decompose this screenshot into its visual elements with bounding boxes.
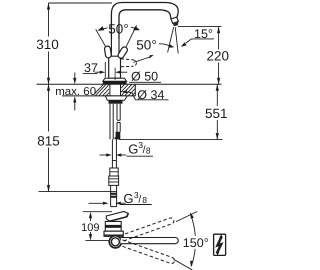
50deg second lower leader with arrow <box>134 57 150 62</box>
handle swing line right <box>121 25 136 57</box>
150 arc extension top <box>176 212 197 222</box>
svg-text:/: / <box>138 193 141 205</box>
riser pipe left edge <box>110 39 112 56</box>
dim 815 arrow down <box>47 185 50 192</box>
handle swing line left <box>96 29 112 57</box>
escutcheon base <box>103 78 127 81</box>
dimension 37 extension left <box>104 62 106 78</box>
dim 109 extension bottom <box>86 240 119 242</box>
dim 37 left arrow <box>95 71 101 73</box>
G3/8 upper label <box>100 155 154 156</box>
dimension 37 extension right <box>114 68 116 81</box>
plan spout bar <box>121 238 178 244</box>
dimension 551 line <box>216 84 218 139</box>
svg-text:150°: 150° <box>183 236 209 250</box>
plan body box <box>105 221 121 231</box>
svg-text:815: 815 <box>37 133 60 148</box>
handle lever left position <box>104 46 112 59</box>
svg-text:50°: 50° <box>136 38 156 53</box>
riser pipe right edge <box>118 39 120 56</box>
dim 551 extension bottom <box>119 139 223 141</box>
aerator tip dark band <box>173 21 179 26</box>
dimension 815 line <box>48 84 50 191</box>
counter hatching left <box>94 84 109 96</box>
escutcheon black band <box>103 81 127 84</box>
hose black bands <box>111 193 117 195</box>
counter hatching right <box>121 84 135 96</box>
dim 815 arrow up <box>47 84 50 91</box>
svg-text:8: 8 <box>146 145 151 155</box>
lightning symbol box <box>214 234 226 255</box>
150 arc extension bottom <box>174 259 193 270</box>
pipe below nipple <box>112 139 116 168</box>
svg-text:G: G <box>123 191 133 206</box>
svg-text:220: 220 <box>207 49 230 64</box>
dim 109 line <box>90 218 92 236</box>
faucet body <box>109 56 121 78</box>
dim 815 extension bottom <box>39 191 117 193</box>
svg-text:8: 8 <box>142 195 147 205</box>
dim 551 arrow up <box>216 84 219 91</box>
dim 310 arrow down <box>47 78 50 85</box>
dimension max60 lower arrow <box>74 100 76 111</box>
G3/8 lower label <box>89 203 152 204</box>
plan lever blade <box>106 212 128 222</box>
hose nipple black <box>115 132 121 140</box>
50deg first right arrow <box>131 27 136 28</box>
svg-text:50°: 50° <box>108 21 128 36</box>
dimension 220 extension top <box>178 26 222 28</box>
dimension 220 line <box>218 27 220 85</box>
plan base flange <box>104 231 123 236</box>
dashed arm lower <box>120 240 175 265</box>
dimension 310 line <box>48 3 50 84</box>
dashed handle forward position <box>121 59 137 67</box>
50deg first left arrow <box>102 28 108 30</box>
svg-text:37: 37 <box>84 61 98 75</box>
dim 220 arrow down <box>217 78 220 85</box>
plan pivot circle <box>109 236 121 248</box>
mounting nut black <box>109 100 123 103</box>
svg-text:Ø 50: Ø 50 <box>131 70 158 84</box>
spout gooseneck outer contour <box>111 3 178 40</box>
shank washer below counter <box>105 96 127 100</box>
svg-text:max. 60: max. 60 <box>55 86 96 98</box>
text G3/8 upper <box>128 140 151 156</box>
dimension 310 extension top <box>49 2 113 4</box>
aerator tip band <box>171 17 179 23</box>
dim 109 arrow up <box>89 212 92 219</box>
supply pipes below nut <box>110 104 120 140</box>
spout gooseneck inner contour <box>119 10 171 39</box>
150 arc arrow top <box>190 213 194 219</box>
svg-text:551: 551 <box>205 106 228 121</box>
150 degree arc <box>190 213 195 266</box>
150 arc arrow bottom <box>190 261 193 267</box>
counter top line <box>37 83 222 85</box>
handle lever right position <box>117 46 129 59</box>
dim 109 extension top <box>83 211 112 213</box>
15deg leader arrow <box>186 39 192 44</box>
spray angle line vertical <box>175 27 178 53</box>
lightning bolt <box>217 236 222 253</box>
dim 220 arrow up <box>217 27 220 33</box>
fitting block <box>110 168 118 176</box>
dim 37 right arrow <box>120 71 128 73</box>
svg-text:G: G <box>128 141 138 156</box>
counter right edge <box>134 84 136 96</box>
pipe joint line <box>112 160 116 162</box>
svg-text:109: 109 <box>81 222 99 234</box>
dashed arm upper <box>120 217 175 242</box>
dim 310 arrow up <box>47 3 50 10</box>
dimension max60 upper arrow <box>74 73 76 81</box>
dim 109 arrow down <box>89 234 92 241</box>
dim 551 arrow down <box>216 133 219 140</box>
svg-text:310: 310 <box>36 37 59 52</box>
text G3/8 lower <box>123 190 147 206</box>
shank through counter hole <box>109 84 111 96</box>
hose pipe <box>111 185 117 206</box>
spray angle line tilted <box>168 27 174 52</box>
counter bottom line <box>62 95 135 97</box>
50deg second right leader arc with arrow <box>159 44 170 46</box>
coupling nut <box>109 176 119 185</box>
